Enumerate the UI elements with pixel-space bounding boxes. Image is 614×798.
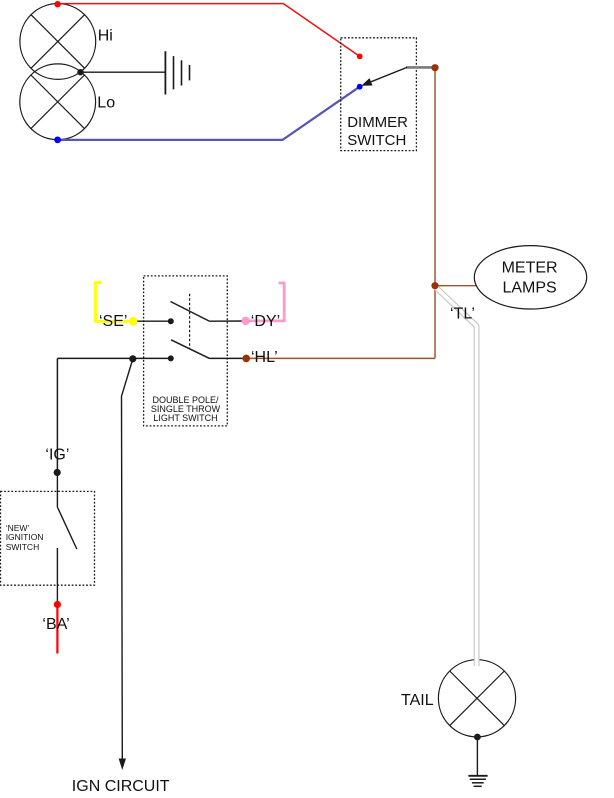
svg-text:Lo: Lo [97,95,115,112]
svg-text:METER: METER [502,259,558,276]
svg-text:‘TL’: ‘TL’ [450,305,475,322]
svg-text:IGNITION: IGNITION [6,532,44,542]
svg-text:Hi: Hi [98,28,113,45]
svg-text:‘SE’: ‘SE’ [99,313,127,330]
svg-text:TAIL: TAIL [401,692,434,709]
svg-text:‘DY’: ‘DY’ [251,313,280,330]
svg-text:SWITCH: SWITCH [347,132,406,149]
svg-text:‘IG’: ‘IG’ [45,447,69,464]
svg-text:‘HL’: ‘HL’ [251,349,278,366]
svg-text:LAMPS: LAMPS [502,279,556,296]
svg-text:SWITCH: SWITCH [6,542,40,552]
svg-text:DIMMER: DIMMER [347,114,408,131]
svg-text:LIGHT SWITCH: LIGHT SWITCH [153,413,217,423]
svg-text:‘BA’: ‘BA’ [42,616,69,633]
svg-text:IGN CIRCUIT: IGN CIRCUIT [72,778,170,795]
